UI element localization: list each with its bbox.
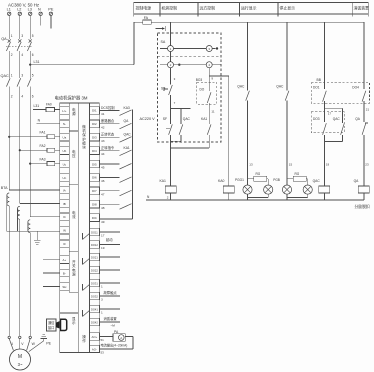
terminal AO- output xyxy=(89,345,99,353)
svg-text:压: 压 xyxy=(72,154,76,158)
svg-text:消弧装置: 消弧装置 xyxy=(354,6,370,11)
breaker QA pole 1 xyxy=(8,16,10,40)
terminal Ua of protector xyxy=(60,133,70,141)
svg-text:FA0: FA0 xyxy=(46,102,52,106)
svg-text:L3: L3 xyxy=(28,8,32,12)
svg-text:13: 13 xyxy=(249,163,253,167)
svg-text:3~: 3~ xyxy=(18,362,23,367)
svg-text:DI2: DI2 xyxy=(92,122,97,126)
svg-text:M: M xyxy=(18,354,22,360)
svg-text:DI7: DI7 xyxy=(92,189,97,193)
svg-text:RG: RG xyxy=(295,172,300,176)
svg-text:DO31: DO31 xyxy=(91,281,98,285)
svg-text:电动机保护器 3M: 电动机保护器 3M xyxy=(55,94,88,101)
terminal DI3 input xyxy=(89,133,99,141)
wire 11 xyxy=(208,103,210,124)
svg-text:QA: QA xyxy=(1,37,7,41)
communication interface box xyxy=(46,319,56,331)
svg-text:23: 23 xyxy=(365,163,369,167)
svg-text:接口: 接口 xyxy=(48,325,54,330)
terminal DO12 output xyxy=(89,241,99,249)
wire PE stub xyxy=(50,16,52,29)
svg-text:示: 示 xyxy=(72,321,76,325)
svg-text:DI6: DI6 xyxy=(92,176,97,180)
block section label 开关电源 xyxy=(69,291,78,293)
svg-text:N-: N- xyxy=(63,122,66,126)
wire CT common return xyxy=(7,230,60,232)
svg-text:AO+: AO+ xyxy=(92,335,98,339)
wire control top rail xyxy=(134,21,143,23)
block section label 电压 xyxy=(69,183,78,185)
svg-text:DCS控制: DCS控制 xyxy=(101,105,115,110)
selector SA contact 2-4 row xyxy=(170,52,172,62)
lamp PGR2 stop indicator xyxy=(303,185,312,194)
terminal N- of protector xyxy=(60,120,70,128)
motor M 3-phase xyxy=(9,339,13,351)
svg-text:KA0: KA0 xyxy=(218,179,225,183)
contactor QAC pole 1 xyxy=(6,78,10,86)
contact DO3 enclosure xyxy=(311,112,344,133)
svg-text:远方控制: 远方控制 xyxy=(200,6,216,11)
node junction wire7 xyxy=(171,107,191,109)
block section label 电源 xyxy=(69,130,78,132)
svg-text:QAC: QAC xyxy=(183,117,191,121)
wire DO32 stub xyxy=(99,295,120,297)
contactor QAC pole 2 xyxy=(17,78,21,86)
svg-text:DO21: DO21 xyxy=(91,255,98,259)
svg-text:AC380 V, 50 Hz: AC380 V, 50 Hz xyxy=(8,3,39,8)
svg-text:51: 51 xyxy=(101,338,105,342)
svg-text:BO3: BO3 xyxy=(196,78,203,82)
svg-text:断路器合: 断路器合 xyxy=(101,118,115,123)
svg-text:1: 1 xyxy=(101,311,103,315)
svg-text:PGG1: PGG1 xyxy=(235,178,244,182)
svg-text:46: 46 xyxy=(101,179,105,183)
wire DO31 stub xyxy=(99,282,120,284)
svg-text:DI3: DI3 xyxy=(92,136,97,140)
svg-text:AC220 V: AC220 V xyxy=(140,117,156,121)
contactor QAC pole 3 xyxy=(27,78,31,86)
svg-text:41: 41 xyxy=(101,112,105,116)
svg-text:A: A xyxy=(120,336,122,340)
wire DI2 circuit 42 xyxy=(99,123,119,125)
motor terminal V xyxy=(19,336,21,338)
svg-text:QAC: QAC xyxy=(237,84,245,88)
svg-text:DO: DO xyxy=(200,88,205,92)
svg-text:2: 2 xyxy=(11,53,13,57)
contact DO relay DO21 xyxy=(83,259,90,265)
svg-text:PGB: PGB xyxy=(273,178,280,182)
svg-text:53: 53 xyxy=(101,351,105,355)
svg-text:Ub: Ub xyxy=(62,149,66,153)
svg-text:运行显示: 运行显示 xyxy=(241,6,257,11)
svg-text:47: 47 xyxy=(101,192,105,196)
svg-text:机旁控制: 机旁控制 xyxy=(162,6,178,11)
terminal Uc of protector xyxy=(60,160,70,168)
breaker QA mechanical link xyxy=(6,46,32,48)
svg-text:DO12: DO12 xyxy=(91,243,98,247)
svg-text:PE: PE xyxy=(48,8,54,12)
wire 3 xyxy=(170,68,172,85)
svg-text:19: 19 xyxy=(101,246,105,250)
svg-text:Ua: Ua xyxy=(62,136,66,140)
wire DI3 circuit 43 xyxy=(99,136,119,138)
terminal AO+ output xyxy=(89,333,99,341)
svg-text:I0: I0 xyxy=(63,242,66,246)
svg-text:A+: A+ xyxy=(63,258,67,262)
svg-text:~M: ~M xyxy=(111,323,116,327)
terminal L/+ of protector xyxy=(60,107,70,115)
wire DI6 circuit 46 xyxy=(99,176,119,178)
svg-text:43: 43 xyxy=(101,139,105,143)
svg-text:KA3: KA3 xyxy=(124,106,130,110)
motor terminal U xyxy=(8,336,10,338)
fuse FA3 voltage tap xyxy=(29,163,31,165)
svg-text:IB: IB xyxy=(63,202,66,206)
svg-text:正转状态: 正转状态 xyxy=(101,132,115,137)
svg-text:起动: 起动 xyxy=(106,237,113,242)
svg-text:电流输出(4~20mA): 电流输出(4~20mA) xyxy=(101,342,128,347)
wire CT3 secondary to block xyxy=(30,216,59,218)
current transformer BTA3 xyxy=(28,220,30,224)
wire DI5 circuit 45 xyxy=(99,163,119,165)
svg-text:48: 48 xyxy=(101,206,105,210)
svg-text:通信: 通信 xyxy=(48,320,55,325)
terminal DO31 output xyxy=(89,279,99,287)
svg-text:L2: L2 xyxy=(17,8,21,12)
current transformer BTA1 xyxy=(7,193,9,197)
svg-text:QA: QA xyxy=(354,179,360,183)
svg-text:KA1: KA1 xyxy=(124,146,130,150)
wire 9 xyxy=(208,68,210,91)
svg-text:KA1: KA1 xyxy=(201,117,207,121)
communication plug connector xyxy=(56,321,61,329)
svg-text:FA: FA xyxy=(144,16,149,20)
terminal DI4 input xyxy=(89,147,99,155)
title block header row xyxy=(134,3,368,15)
selector SA contact 1-3 row xyxy=(170,22,172,45)
wire node9 to KA0 coil branch xyxy=(209,75,229,77)
svg-text:3: 3 xyxy=(21,73,23,77)
svg-text:4: 4 xyxy=(21,53,23,57)
svg-text:Uc: Uc xyxy=(63,162,67,166)
svg-text:SH: SH xyxy=(62,285,66,289)
svg-text:DO3: DO3 xyxy=(313,117,320,121)
wire CT2 secondary to block xyxy=(20,202,60,204)
node merge wire xyxy=(171,147,210,149)
svg-text:DO4: DO4 xyxy=(352,86,359,90)
svg-text:IN: IN xyxy=(63,229,66,233)
terminal DI1 input xyxy=(89,107,99,115)
svg-text:流: 流 xyxy=(72,214,76,219)
motor protector block outline xyxy=(60,103,100,353)
block section label 显示 xyxy=(60,312,79,314)
svg-text:BTA: BTA xyxy=(1,186,8,190)
svg-text:N: N xyxy=(38,8,41,12)
terminal DO21 output xyxy=(89,253,99,261)
svg-text:源: 源 xyxy=(72,272,76,277)
selector switch SA enclosure xyxy=(158,33,222,142)
svg-text:17: 17 xyxy=(101,234,105,238)
svg-text:DO41: DO41 xyxy=(91,307,98,311)
wire comm terminal stub xyxy=(43,259,60,261)
svg-text:FA1: FA1 xyxy=(40,131,46,135)
terminal DO32 output xyxy=(89,292,99,300)
terminal A+ of protector xyxy=(60,256,70,264)
svg-text:3: 3 xyxy=(101,298,103,302)
svg-text:控制电源: 控制电源 xyxy=(136,6,152,11)
svg-text:SF: SF xyxy=(161,87,165,91)
wire DO11 stub xyxy=(99,231,120,233)
terminal DO42 output xyxy=(89,318,99,326)
wire DO22 stub xyxy=(99,269,120,271)
terminal B- of protector xyxy=(60,269,70,277)
svg-text:QAC: QAC xyxy=(313,179,321,183)
svg-text:45: 45 xyxy=(101,166,105,170)
svg-text:1: 1 xyxy=(11,34,13,38)
wire 7 xyxy=(170,95,172,108)
svg-text:DI8: DI8 xyxy=(92,203,97,207)
svg-text:QAC: QAC xyxy=(333,117,341,121)
contactor coil QAC xyxy=(323,135,325,186)
ground symbol motor PE xyxy=(29,341,44,352)
svg-text:11: 11 xyxy=(211,110,214,114)
ground symbol CT star point xyxy=(36,231,38,240)
terminal DI common xyxy=(89,214,99,222)
svg-text:DO1: DO1 xyxy=(313,86,320,90)
terminal SH of protector xyxy=(60,283,70,291)
wire CT1 secondary to block xyxy=(9,189,59,191)
wire DI common 49 xyxy=(132,110,134,220)
svg-text:6: 6 xyxy=(32,95,34,99)
wire DO42 stub xyxy=(99,321,120,323)
terminal DI2 input xyxy=(89,120,99,128)
svg-text:19: 19 xyxy=(326,163,330,167)
block section label 电流 xyxy=(69,250,78,252)
wire comm terminal stub xyxy=(43,272,60,274)
svg-text:5: 5 xyxy=(32,34,34,38)
fuse FA1 voltage tap xyxy=(8,136,10,138)
svg-text:QAC: QAC xyxy=(1,74,9,78)
svg-text:IA: IA xyxy=(63,188,66,192)
svg-text:DO32: DO32 xyxy=(91,294,98,298)
svg-text:L31: L31 xyxy=(34,60,40,64)
current transformer BTA2 xyxy=(17,206,19,210)
terminal DO41 output xyxy=(89,305,99,313)
terminal IC of protector xyxy=(60,213,70,221)
terminal Un of protector xyxy=(60,174,70,182)
svg-text:B-: B- xyxy=(63,271,66,275)
terminal DI5 input xyxy=(89,160,99,168)
svg-text:SA: SA xyxy=(161,40,166,44)
lamp PGR1 stop indicator xyxy=(282,185,291,194)
svg-text:L1: L1 xyxy=(7,8,11,12)
svg-text:2: 2 xyxy=(11,95,13,99)
svg-text:1: 1 xyxy=(11,73,13,77)
svg-text:1: 1 xyxy=(101,285,103,289)
svg-text:DO42: DO42 xyxy=(91,320,98,324)
svg-text:42: 42 xyxy=(101,125,105,129)
terminal IA of protector xyxy=(60,186,70,194)
contact DO relay DO11 xyxy=(83,234,90,240)
terminal DI6 input xyxy=(89,174,99,182)
svg-text:DO11: DO11 xyxy=(91,230,98,234)
svg-text:L/+: L/+ xyxy=(62,109,66,113)
svg-text:IC: IC xyxy=(63,215,66,219)
svg-text:块: 块 xyxy=(82,145,86,150)
svg-text:SF: SF xyxy=(163,117,167,121)
svg-text:DO22: DO22 xyxy=(91,268,98,272)
fuse FA2 voltage tap xyxy=(19,149,21,151)
svg-text:3: 3 xyxy=(21,34,23,38)
svg-text:49: 49 xyxy=(101,220,105,224)
wire L31 horizontal run to control circuit xyxy=(30,64,134,66)
svg-text:源: 源 xyxy=(72,111,76,116)
wire DI7 circuit 47 xyxy=(99,190,119,192)
svg-text:6: 6 xyxy=(32,53,34,57)
wire DI1 circuit 41 xyxy=(99,109,119,111)
contact DO relay DO41 xyxy=(83,311,90,317)
wire DO41 stub xyxy=(99,308,120,310)
svg-text:停止显示: 停止显示 xyxy=(280,6,296,11)
svg-text:QAC: QAC xyxy=(276,84,284,88)
svg-text:L31: L31 xyxy=(34,104,40,108)
wire marker arrow xyxy=(156,28,163,30)
svg-text:QA: QA xyxy=(124,119,130,123)
wire DO21 stub xyxy=(99,256,120,258)
svg-text:KA1: KA1 xyxy=(160,179,167,183)
svg-text:消弧装置: 消弧装置 xyxy=(104,316,118,321)
wire DO12 stub xyxy=(99,244,120,246)
svg-text:21: 21 xyxy=(366,107,370,111)
terminal I0 of protector xyxy=(60,240,70,248)
svg-text:正转指令: 正转指令 xyxy=(101,145,115,150)
wire N stub xyxy=(40,16,42,26)
terminal Ub of protector xyxy=(60,147,70,155)
motor terminal W xyxy=(29,336,31,338)
svg-text:DIC: DIC xyxy=(92,216,97,220)
svg-text:5: 5 xyxy=(32,73,34,77)
svg-text:分励脱扣: 分励脱扣 xyxy=(355,204,370,209)
terminal IN of protector xyxy=(60,226,70,234)
terminal DO11 output xyxy=(89,228,99,236)
node L31 tap on L3 phase xyxy=(29,64,31,66)
terminal DI8 input xyxy=(89,200,99,208)
svg-text:15: 15 xyxy=(289,163,293,167)
svg-text:4: 4 xyxy=(21,95,23,99)
wire comm terminal stub xyxy=(43,285,60,287)
svg-text:DI1: DI1 xyxy=(92,109,97,113)
svg-text:作: 作 xyxy=(82,338,86,343)
svg-text:FA3: FA3 xyxy=(40,157,46,161)
terminal DI7 input xyxy=(89,187,99,195)
svg-text:AO-: AO- xyxy=(92,347,97,351)
svg-text:QAC: QAC xyxy=(124,133,132,137)
svg-text:RG: RG xyxy=(256,172,261,176)
svg-text:Un: Un xyxy=(62,176,66,180)
wire DI8 circuit 48 xyxy=(99,203,119,205)
contact DO relay DO31 xyxy=(83,285,90,291)
breaker QA pole 3 xyxy=(29,16,31,40)
breaker shunt trip coil QA xyxy=(363,135,365,186)
breaker QA pole 2 xyxy=(19,16,21,40)
svg-text:FA2: FA2 xyxy=(40,144,46,148)
svg-text:DI5: DI5 xyxy=(92,162,97,166)
terminal IB of protector xyxy=(60,200,70,208)
svg-text:44: 44 xyxy=(101,152,105,156)
wire DI4 circuit 44 xyxy=(99,150,119,152)
svg-text:故障触点: 故障触点 xyxy=(104,290,118,295)
svg-text:DI4: DI4 xyxy=(92,149,97,153)
svg-text:PE: PE xyxy=(46,342,51,346)
terminal DO22 output xyxy=(89,266,99,274)
svg-text:17: 17 xyxy=(328,111,332,115)
